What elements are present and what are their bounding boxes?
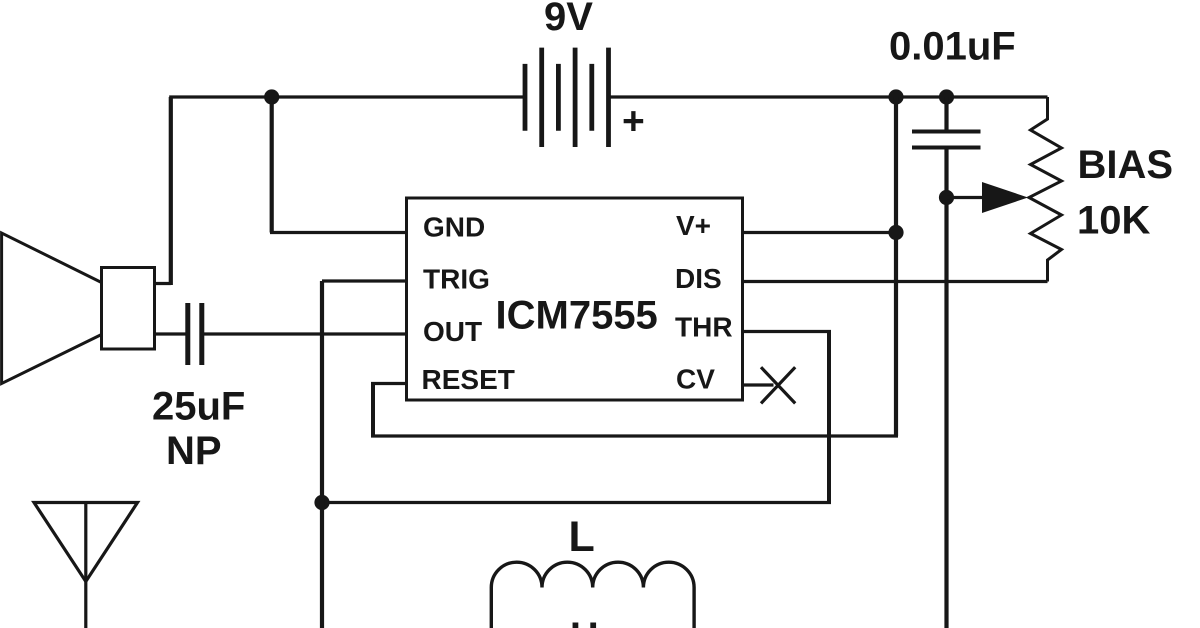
potentiometer R1 BIAS 10K zigzag body [1029, 97, 1062, 282]
svg-text:NP: NP [166, 429, 222, 473]
node junction dot E (wiper junction) [939, 190, 954, 205]
capacitor C1 bottom lead long vertical [944, 148, 948, 628]
no-connect X at CV pin [761, 367, 795, 403]
inductor L coil [491, 562, 694, 628]
wire top rail left segment [169, 95, 525, 98]
wire DIS pin [742, 280, 1048, 283]
battery B1 long plate 3 [606, 48, 611, 147]
wire TRIG pin [322, 279, 406, 282]
capacitor C2 25uF left plate [185, 303, 190, 365]
svg-text:L: L [569, 513, 595, 561]
svg-text:GND: GND [423, 212, 485, 243]
battery B1 long plate 2 [573, 48, 578, 147]
svg-text:+: + [622, 100, 645, 143]
wire wiper horizontal [947, 196, 986, 199]
svg-text:OUT: OUT [423, 316, 482, 347]
svg-text:ICM7555: ICM7555 [496, 294, 658, 338]
svg-text:THR: THR [675, 312, 733, 343]
svg-text:DIS: DIS [675, 263, 722, 294]
node junction dot B (rail to V+/RESET vertical) [888, 89, 903, 104]
svg-text:V+: V+ [676, 210, 711, 241]
antenna ANT1 triangle [34, 503, 138, 582]
node junction dot D (V+ to vertical) [888, 225, 903, 240]
wire OUT pin right segment [204, 332, 406, 335]
svg-text:uH: uH [546, 615, 599, 628]
capacitor C1 0.01uF top lead [944, 97, 948, 132]
antenna ANT1 vertical lead [84, 503, 87, 628]
wire speaker top vertical [154, 282, 171, 285]
wire OUT pin left segment [154, 332, 186, 335]
wire GND branch [270, 97, 274, 233]
wire V+/RESET vertical [894, 97, 898, 436]
speaker SPK1 driver rectangle [102, 268, 155, 350]
wire CV stub [742, 383, 774, 386]
node junction dot C (rail to 0.01uF cap) [939, 89, 954, 104]
wire top rail right segment [609, 95, 1048, 98]
wire RESET pin [371, 382, 406, 385]
wire THR pin [742, 330, 831, 333]
svg-text:RESET: RESET [422, 364, 515, 395]
capacitor C1 0.01uF bottom plate [912, 146, 981, 150]
capacitor C2 25uF right plate [199, 303, 204, 365]
svg-text:0.01uF: 0.01uF [889, 25, 1016, 69]
capacitor C1 0.01uF top plate [912, 130, 981, 134]
svg-text:25uF: 25uF [152, 385, 245, 429]
svg-text:9V: 9V [544, 0, 593, 39]
svg-text:TRIG: TRIG [423, 264, 490, 295]
node junction dot F (TRIG/THR junction) [314, 495, 329, 510]
battery B1 short plate 2 [556, 64, 561, 131]
IC U1 ICM7555 timer box [407, 198, 743, 400]
wire RESET return horizontal [371, 434, 898, 437]
battery B1 long plate 1 [539, 48, 544, 147]
svg-text:10K: 10K [1077, 199, 1150, 243]
node junction dot A (rail to GND branch) [264, 89, 279, 104]
battery B1 short plate 1 [523, 64, 528, 131]
wire TRIG long vertical [320, 281, 324, 628]
potentiometer R1 wiper arrow [982, 182, 1028, 213]
wire V+ pin [742, 231, 896, 234]
svg-text:BIAS: BIAS [1078, 143, 1174, 187]
speaker SPK1 horn cone [2, 233, 102, 384]
battery B1 short plate 3 [589, 64, 594, 131]
svg-text:CV: CV [676, 364, 715, 395]
